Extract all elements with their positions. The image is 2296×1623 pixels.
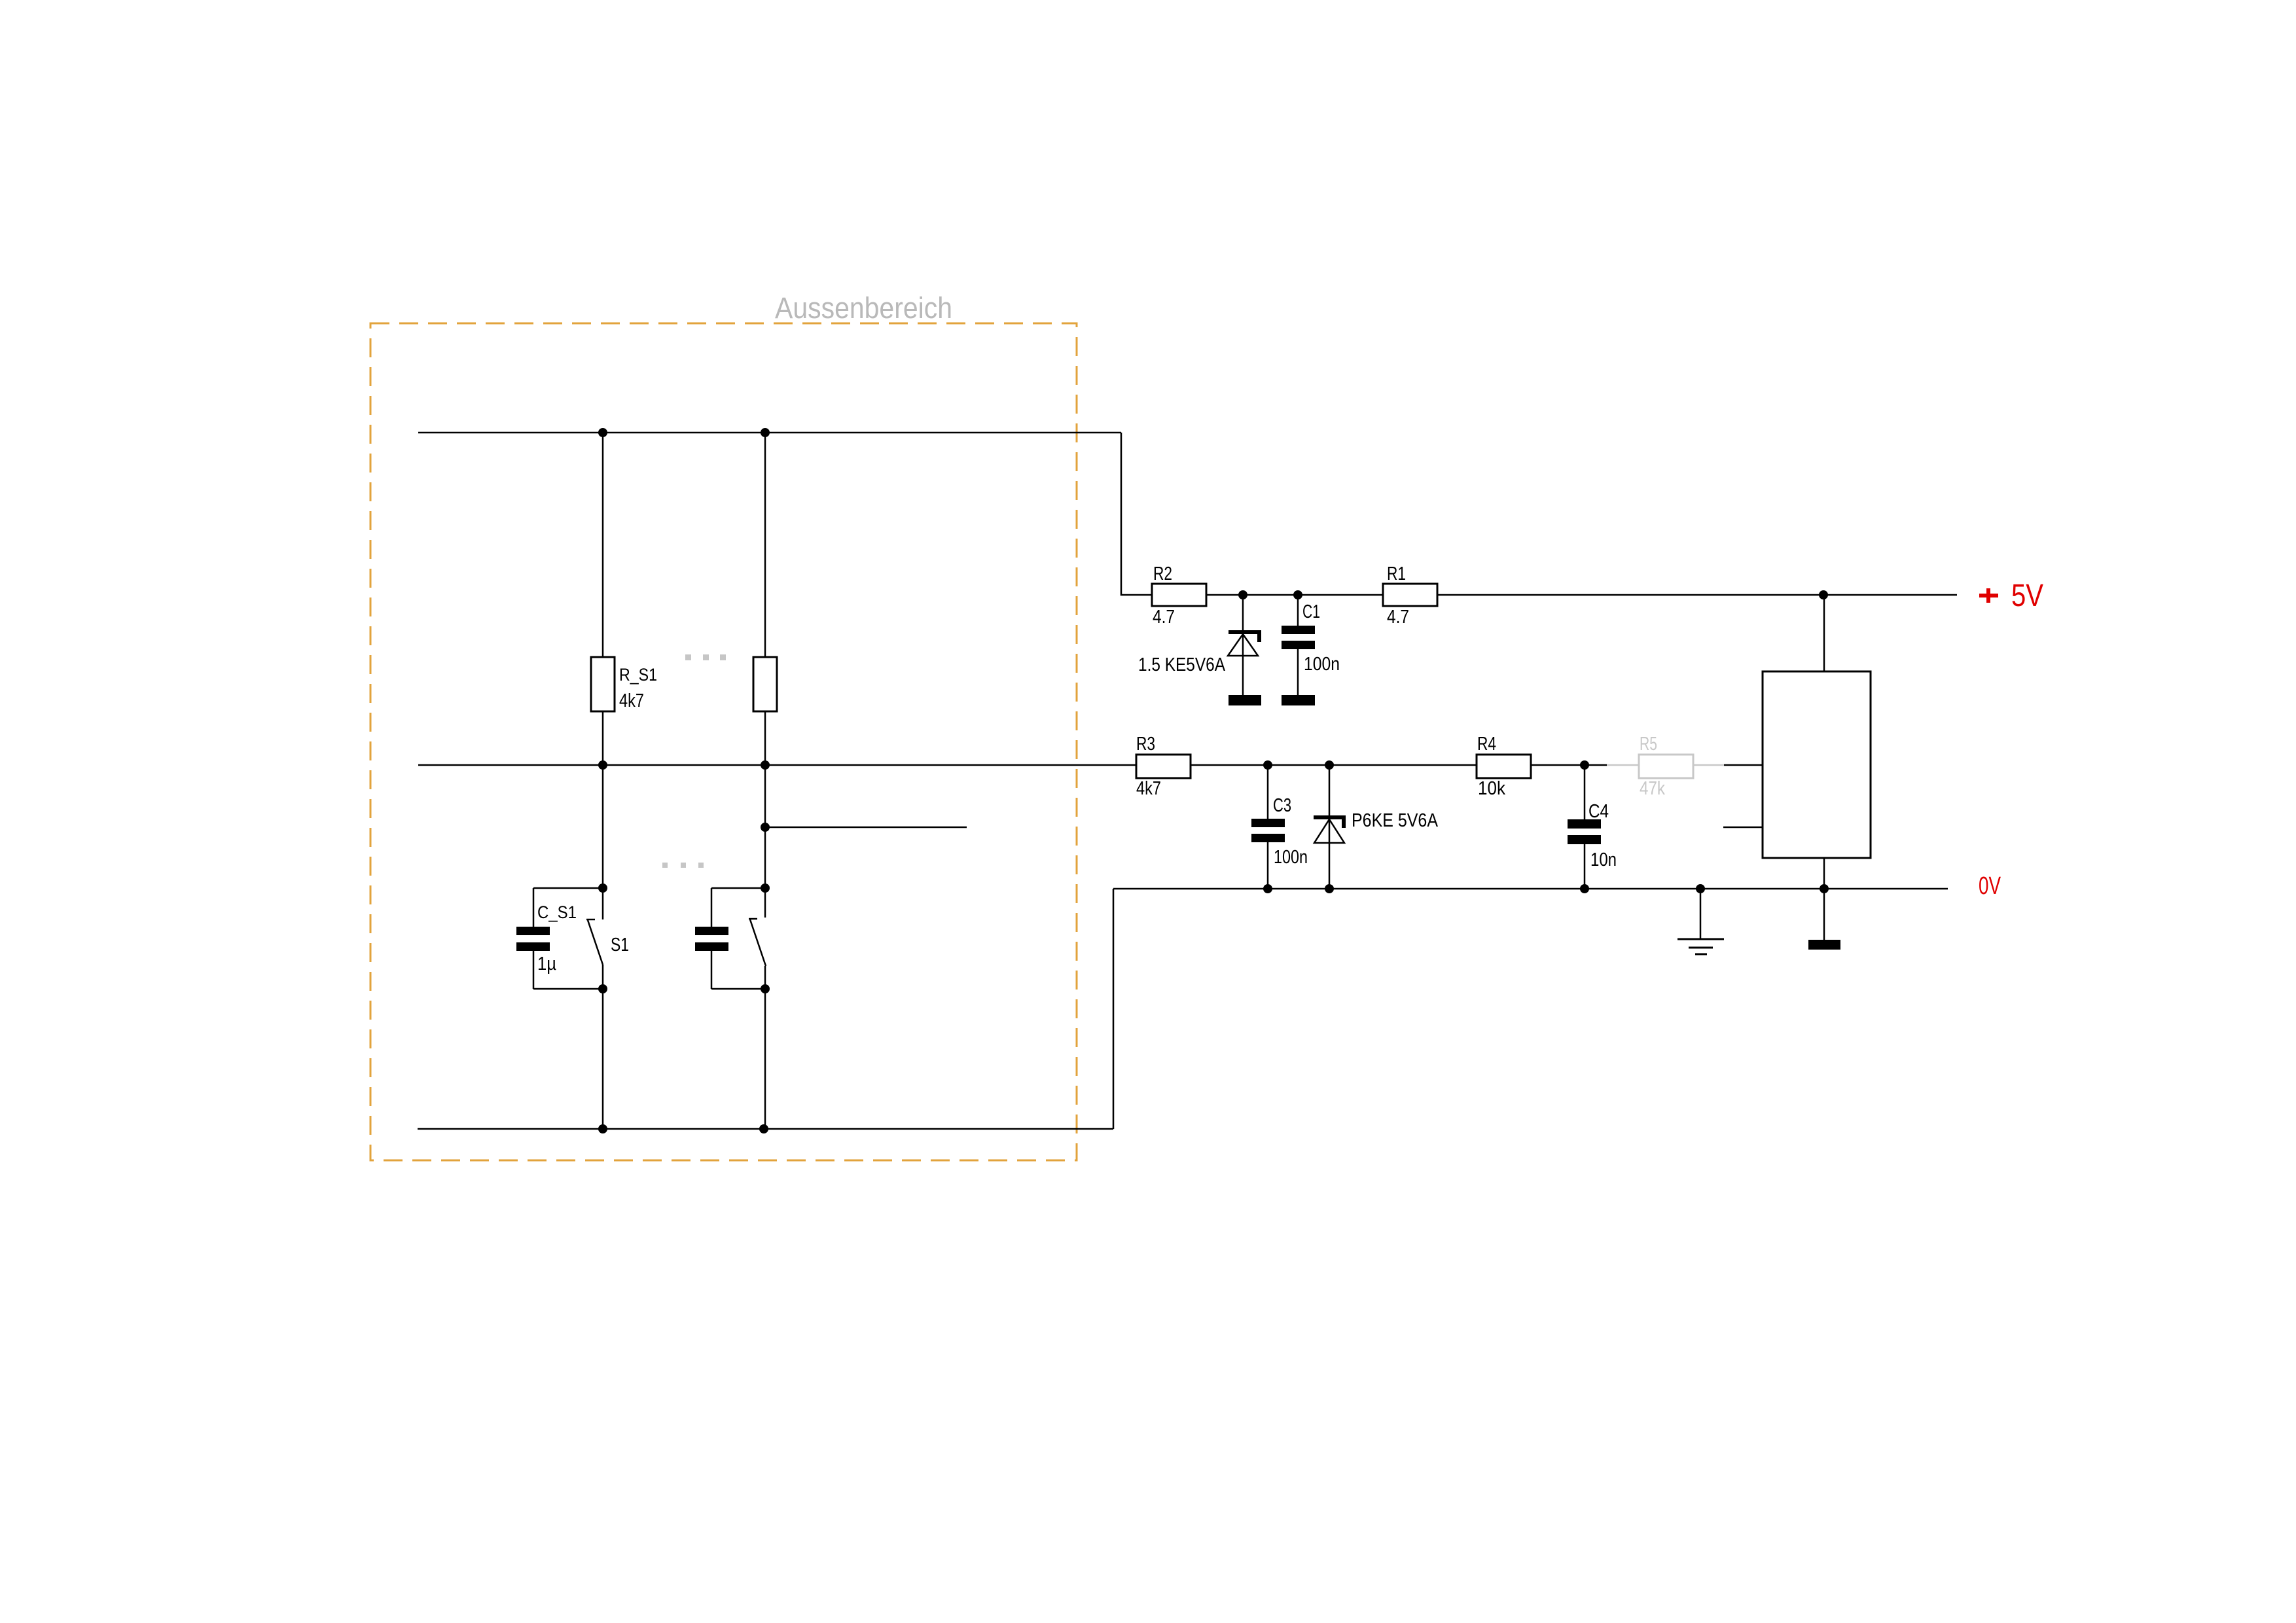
- svg-text:R1: R1: [1387, 563, 1406, 584]
- wire bottom rail rise to 0V: [1113, 889, 1115, 1129]
- svg-text:5V: 5V: [2011, 579, 2043, 613]
- node junction mid rail col1: [598, 760, 607, 770]
- node junction C3 top: [1263, 760, 1272, 770]
- svg-text:4k7: 4k7: [619, 690, 644, 711]
- wire column1 middle: [602, 711, 604, 919]
- node junction bottom rail col2: [759, 1124, 768, 1133]
- node junction top rail col2: [761, 428, 770, 437]
- node junction bottom rail col1: [598, 1124, 607, 1133]
- svg-text:100n: 100n: [1304, 654, 1340, 675]
- svg-text:4k7: 4k7: [1136, 778, 1161, 799]
- wire top rail drop to +5V row: [1121, 433, 1152, 595]
- Aussenbereich region box (orange dashed): [370, 323, 1077, 1160]
- svg-text:0V: 0V: [1979, 872, 2001, 900]
- svg-text:C1: C1: [1302, 601, 1320, 622]
- wire IC top pin: [1823, 595, 1825, 671]
- node junction P6KE top: [1325, 760, 1334, 770]
- wire bottom rail: [418, 1128, 1113, 1130]
- zener diode P6KE 5V6A: [1314, 765, 1439, 889]
- svg-text:4.7: 4.7: [1387, 607, 1409, 628]
- capacitor C3: [1251, 765, 1308, 889]
- resistor R1: [1383, 563, 1437, 628]
- resistor R_S1: [591, 657, 657, 711]
- resistor R3: [1136, 734, 1191, 799]
- svg-text:10k: 10k: [1478, 778, 1505, 799]
- wire 0V rail: [1113, 888, 1948, 890]
- switch column2 (unlabeled): [749, 919, 766, 966]
- svg-text:R4: R4: [1477, 734, 1496, 755]
- resistor R2: [1152, 563, 1206, 628]
- ground bar zener: [1229, 695, 1261, 705]
- svg-text:C3: C3: [1273, 795, 1291, 816]
- node junction zener top: [1238, 590, 1247, 599]
- node junction switch top col1: [598, 883, 607, 893]
- node junction P6KE bottom: [1325, 884, 1334, 893]
- wire IC bottom pin: [1823, 858, 1825, 889]
- node junction IC bottom: [1820, 884, 1829, 893]
- wire column2 lower: [764, 966, 766, 1129]
- signal ground bar under IC: [1808, 889, 1840, 950]
- node junction mid rail col2: [761, 760, 770, 770]
- svg-text:S1: S1: [611, 935, 629, 955]
- gray dots lower row: [662, 863, 704, 868]
- ground bar C1: [1282, 695, 1315, 705]
- IC U1 box: [1763, 671, 1871, 858]
- node junction C3 bottom: [1263, 884, 1272, 893]
- capacitor C_S1: [516, 888, 603, 989]
- svg-text:4.7: 4.7: [1153, 607, 1175, 628]
- wire column1 lower: [602, 965, 604, 1129]
- svg-text:10n: 10n: [1590, 849, 1617, 870]
- gray dots upper row: [685, 654, 726, 660]
- wire R5 to IC pin: [1724, 764, 1763, 766]
- node junction switch bottom col2: [761, 984, 770, 993]
- svg-text:R_S1: R_S1: [619, 665, 657, 685]
- svg-text:R3: R3: [1136, 734, 1155, 755]
- wire R2 to R1: [1206, 594, 1383, 596]
- svg-text:C_S1: C_S1: [537, 902, 577, 922]
- svg-text:C4: C4: [1588, 801, 1609, 822]
- svg-text:R2: R2: [1153, 563, 1172, 584]
- capacitor C1: [1282, 595, 1340, 695]
- node junction C1 top: [1293, 590, 1302, 599]
- zener diode 1.5 KE5V6A: [1138, 595, 1261, 695]
- node junction earth ground: [1696, 884, 1705, 893]
- wire column2 upper: [764, 433, 766, 657]
- node junction top rail col1: [598, 428, 607, 437]
- node junction C4 bottom: [1580, 884, 1589, 893]
- resistor R5 (grey, optional): [1607, 734, 1724, 799]
- node junction IC top pin: [1819, 590, 1828, 599]
- wire top rail: [418, 432, 1121, 434]
- resistor column2 (unlabeled): [753, 657, 777, 711]
- wire R3 to R4: [1191, 764, 1477, 766]
- switch S1: [586, 919, 629, 965]
- svg-text:R5: R5: [1640, 734, 1657, 755]
- svg-text:47k: 47k: [1640, 778, 1665, 799]
- svg-text:Aussenbereich: Aussenbereich: [775, 291, 952, 325]
- wire column2 middle: [764, 711, 766, 918]
- node junction C4 top: [1580, 760, 1589, 770]
- label +5V: [1979, 579, 2043, 613]
- wire R4 to node: [1531, 764, 1607, 766]
- wire mid rail left: [418, 764, 1136, 766]
- svg-text:1µ: 1µ: [537, 954, 556, 974]
- wire stub col2: [765, 827, 967, 829]
- svg-text:P6KE 5V6A: P6KE 5V6A: [1352, 810, 1439, 831]
- svg-text:1.5 KE5V6A: 1.5 KE5V6A: [1138, 654, 1226, 675]
- earth ground symbol: [1677, 889, 1724, 954]
- wire IC pin 2 stub: [1723, 827, 1763, 829]
- capacitor column2 (unlabeled): [695, 888, 765, 989]
- node junction stub col2: [761, 823, 770, 832]
- wire +5V rail: [1437, 594, 1957, 596]
- wire column1 upper: [602, 433, 604, 657]
- svg-text:100n: 100n: [1274, 847, 1308, 868]
- resistor R4: [1477, 734, 1531, 799]
- capacitor C4: [1568, 765, 1617, 889]
- node junction switch top col2: [761, 883, 770, 893]
- node junction switch bottom col1: [598, 984, 607, 993]
